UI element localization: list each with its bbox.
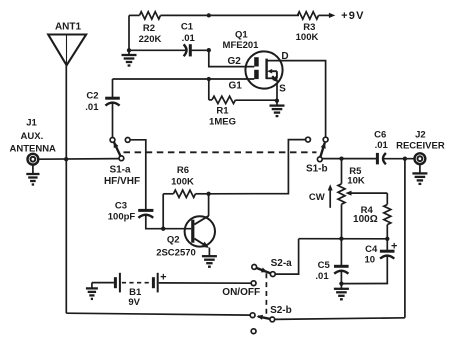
wire S1-b pole to R5 <box>341 159 343 184</box>
node antenna/J1 junction <box>64 157 68 161</box>
resistor R6 <box>163 165 208 198</box>
wire C4 top lead <box>386 239 388 251</box>
wire G1 to R1 <box>208 79 210 100</box>
svg-text:1MEG: 1MEG <box>209 116 236 127</box>
node Q2 base junction <box>161 227 165 231</box>
connector J2 <box>396 129 445 164</box>
capacitor C3 <box>108 201 154 223</box>
svg-text:C2: C2 <box>86 90 98 101</box>
svg-text:R6: R6 <box>177 165 189 176</box>
svg-text:100K: 100K <box>171 176 194 187</box>
dashed linkage S1 <box>124 151 317 153</box>
svg-text:.01: .01 <box>315 271 329 282</box>
wire Q1 source down <box>276 83 278 106</box>
dashed linkage S2 <box>265 273 267 314</box>
node R5 top junction <box>339 156 343 160</box>
antenna ANT1 <box>48 21 86 65</box>
capacitor C2 <box>85 90 120 113</box>
node G1 junction <box>207 77 211 81</box>
svg-text:C6: C6 <box>374 129 386 140</box>
svg-text:G2: G2 <box>228 56 242 67</box>
svg-text:C3: C3 <box>115 201 127 212</box>
svg-text:100pF: 100pF <box>108 212 136 223</box>
svg-text:ON/OFF: ON/OFF <box>222 287 260 298</box>
wire R6 to S1-b throw <box>209 140 306 194</box>
svg-text:HF/VHF: HF/VHF <box>104 176 140 187</box>
wire R6 left vertical <box>162 194 164 229</box>
wire S1-a throw to C3 <box>130 140 146 210</box>
svg-text:AUX.: AUX. <box>21 131 44 142</box>
switch S1-a <box>104 138 140 188</box>
CW arrow <box>309 184 333 208</box>
svg-text:220K: 220K <box>139 34 162 45</box>
wire right vertical return <box>404 159 406 318</box>
battery B1 <box>114 272 167 309</box>
svg-text:S2-b: S2-b <box>270 305 292 316</box>
resistor R4 <box>353 193 391 239</box>
wire B1 positive lead <box>159 282 252 284</box>
wire top rail middle segment <box>161 14 300 16</box>
svg-text:2SC2570: 2SC2570 <box>156 248 196 259</box>
ground below Q2 emitter <box>202 256 217 267</box>
switch S1-b <box>306 137 328 174</box>
wire C2 top <box>112 79 114 98</box>
wire Q2 collector <box>208 194 210 216</box>
wire R1 to source node <box>236 99 277 101</box>
resistor R1 <box>209 96 236 127</box>
wire Q1 drain to S1-b <box>267 61 326 138</box>
svg-text:R2: R2 <box>143 23 155 34</box>
wire R5 bottom <box>341 204 343 239</box>
svg-text:ANT1: ANT1 <box>55 21 82 32</box>
svg-text:C5: C5 <box>318 260 331 271</box>
wire G2 feed <box>209 50 255 66</box>
capacitor C1 <box>181 22 196 57</box>
svg-text:9V: 9V <box>128 297 140 308</box>
svg-text:G1: G1 <box>229 81 243 92</box>
wire left vertical of bias divider <box>128 15 130 50</box>
ground below C5 <box>334 289 349 300</box>
node R6/collector junction <box>206 192 210 196</box>
resistor R3 <box>296 12 319 43</box>
svg-text:100Ω: 100Ω <box>353 214 378 225</box>
svg-text:.01: .01 <box>85 102 99 113</box>
ground below B1 <box>86 283 98 299</box>
svg-text:C1: C1 <box>181 22 194 33</box>
node output/J2 junction <box>403 157 407 161</box>
switch S2-a <box>251 258 292 285</box>
svg-text:S1-a: S1-a <box>109 164 131 175</box>
node Q1 source junction <box>275 98 279 102</box>
svg-text:+: + <box>391 241 397 253</box>
potentiometer R5 <box>338 166 387 204</box>
svg-text:S1-b: S1-b <box>306 163 328 174</box>
connector J1 <box>9 117 56 164</box>
svg-text:S2-a: S2-a <box>271 258 293 269</box>
wire C6 to J2 <box>383 158 414 160</box>
wire Q2 emitter down <box>208 248 210 257</box>
wire C5 top lead <box>340 239 342 267</box>
wire C5 bottom lead <box>340 270 342 288</box>
wire J1 to S1-a <box>38 158 119 161</box>
wire C2 bottom <box>112 102 114 137</box>
transistor Q2 <box>156 216 215 259</box>
svg-text:+9V: +9V <box>341 10 364 22</box>
svg-text:CW: CW <box>309 192 325 203</box>
ground below J2 <box>412 164 427 184</box>
wire output row <box>322 158 377 160</box>
capacitor C4 <box>365 241 398 266</box>
svg-text:J2: J2 <box>415 129 426 140</box>
svg-text:C4: C4 <box>365 244 378 255</box>
wire B1 negative lead <box>92 282 114 284</box>
wire top rail left segment <box>129 14 140 16</box>
wire C1 row left <box>129 49 187 51</box>
svg-text:100K: 100K <box>296 32 319 43</box>
svg-text:.01: .01 <box>182 33 196 44</box>
wire G1 horizontal <box>113 78 255 80</box>
svg-text:.01: .01 <box>375 140 389 151</box>
node C5 top junction <box>339 237 343 241</box>
svg-text:10: 10 <box>365 255 376 266</box>
wire S2-a up branch <box>275 239 298 274</box>
node top-rail junction <box>207 13 211 17</box>
ground below Q1 source <box>270 106 285 117</box>
wire C3 to base node <box>146 214 192 228</box>
transistor Q1 <box>223 30 289 95</box>
+9V supply arrow <box>329 10 365 22</box>
wire antenna vertical <box>65 65 67 313</box>
ground below R2/C1 <box>122 50 137 65</box>
capacitor C5 <box>315 260 348 282</box>
node R2/C1 ground junction <box>127 48 131 52</box>
capacitor C6 <box>374 129 388 164</box>
wire bottom right rail <box>275 318 405 320</box>
wire +9V arrow lead <box>319 14 330 16</box>
node C5 ground junction <box>339 281 343 285</box>
ground below J1 <box>26 165 39 185</box>
switch S2-b <box>250 305 292 333</box>
svg-text:MFE201: MFE201 <box>223 40 260 51</box>
wire bottom left rail <box>66 313 250 315</box>
svg-text:RECEIVER: RECEIVER <box>396 140 445 151</box>
resistor R2 <box>139 12 162 46</box>
node C1/G2 junction <box>207 48 211 52</box>
svg-text:+: + <box>160 272 166 284</box>
svg-text:S: S <box>279 84 286 95</box>
wire C1 to G2 node <box>190 49 209 51</box>
svg-text:10K: 10K <box>347 175 365 186</box>
wire C4 bottom lead <box>341 255 387 283</box>
node C4 top junction <box>385 237 389 241</box>
svg-text:J1: J1 <box>26 117 37 128</box>
label ON/OFF <box>222 287 260 298</box>
svg-text:ANTENNA: ANTENNA <box>9 144 56 155</box>
svg-text:R1: R1 <box>216 106 229 117</box>
svg-text:Q2: Q2 <box>167 235 180 246</box>
wire bottom mid row <box>299 238 388 240</box>
